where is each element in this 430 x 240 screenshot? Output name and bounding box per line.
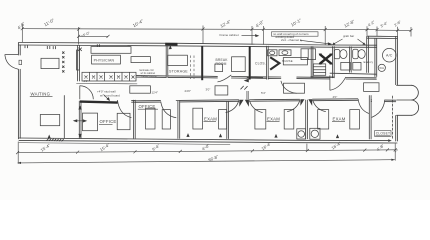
svg-text:STORAGE: STORAGE xyxy=(169,69,188,73)
svg-text:CLOS.: CLOS. xyxy=(255,62,266,66)
svg-text:below counter: below counter xyxy=(142,75,158,78)
svg-text:EXAM: EXAM xyxy=(267,116,280,121)
svg-text:EXAM: EXAM xyxy=(204,116,217,121)
svg-text:WH: WH xyxy=(379,66,384,70)
svg-text:grab bar: grab bar xyxy=(343,34,354,38)
svg-text:5'4": 5'4" xyxy=(261,91,266,95)
svg-text:lavatory: lavatory xyxy=(363,61,374,64)
svg-text:24'0": 24'0" xyxy=(185,89,191,93)
svg-text:WAITING: WAITING xyxy=(31,91,51,96)
svg-text:EXAM: EXAM xyxy=(333,116,346,121)
svg-text:2x4 - channel ty: 2x4 - channel ty xyxy=(281,38,303,42)
svg-text:ROOM: ROOM xyxy=(216,62,227,66)
svg-text:OFFICE: OFFICE xyxy=(139,104,156,109)
svg-text:6'0": 6'0" xyxy=(84,79,89,83)
svg-text:3'0": 3'0" xyxy=(206,88,211,92)
svg-text:OFFICE: OFFICE xyxy=(100,119,117,124)
svg-text:NURSE: NURSE xyxy=(282,59,293,63)
svg-text:PHYSICIAN: PHYSICIAN xyxy=(94,58,115,62)
svg-text:4'0": 4'0" xyxy=(333,95,338,99)
svg-text:Frame cabinet: Frame cabinet xyxy=(220,33,239,37)
svg-text:12'4": 12'4" xyxy=(152,90,158,94)
svg-text:A/C: A/C xyxy=(386,54,393,58)
svg-text:w/ sound board: w/ sound board xyxy=(100,93,120,97)
svg-text:CLOSET: CLOSET xyxy=(376,132,390,136)
